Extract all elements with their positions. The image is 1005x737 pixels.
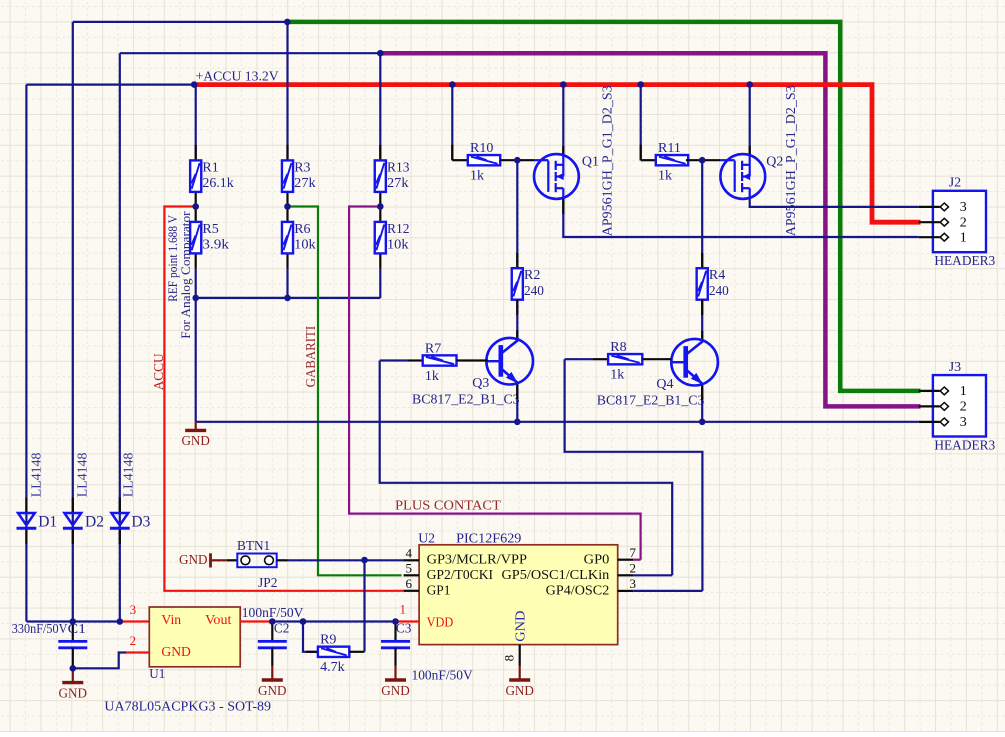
svg-text:J2: J2 <box>949 176 961 191</box>
svg-text:2: 2 <box>960 216 967 231</box>
svg-text:1: 1 <box>960 231 967 246</box>
svg-text:GND: GND <box>513 611 528 642</box>
svg-text:GP5/OSC1/CLKin: GP5/OSC1/CLKin <box>502 568 610 583</box>
svg-text:LL4148: LL4148 <box>29 453 44 498</box>
svg-text:1k: 1k <box>470 169 484 184</box>
svg-text:LL4148: LL4148 <box>75 453 90 498</box>
svg-text:26.1k: 26.1k <box>202 176 233 191</box>
svg-text:D3: D3 <box>131 514 150 531</box>
svg-text:GABARITI: GABARITI <box>303 325 318 387</box>
svg-text:HEADER3: HEADER3 <box>934 438 995 453</box>
svg-text:R12: R12 <box>387 222 410 237</box>
svg-text:Q1: Q1 <box>582 155 599 170</box>
svg-text:UA78L05ACPKG3 - SOT-89: UA78L05ACPKG3 - SOT-89 <box>104 699 271 714</box>
svg-text:27k: 27k <box>294 176 316 191</box>
svg-text:+ACCU 13.2V: +ACCU 13.2V <box>196 69 279 84</box>
svg-text:3.9k: 3.9k <box>202 238 229 253</box>
svg-text:PIC12F629: PIC12F629 <box>456 531 521 546</box>
svg-text:3: 3 <box>130 602 137 617</box>
svg-text:1: 1 <box>400 601 407 616</box>
svg-text:U1: U1 <box>149 667 165 682</box>
svg-text:GND: GND <box>161 645 191 660</box>
svg-text:GND: GND <box>179 553 208 568</box>
svg-text:U2: U2 <box>418 531 435 546</box>
svg-text:LL4148: LL4148 <box>121 453 136 498</box>
svg-text:R1: R1 <box>202 160 218 175</box>
svg-text:1: 1 <box>960 384 967 399</box>
svg-text:GP3/MCLR/VPP: GP3/MCLR/VPP <box>427 552 528 567</box>
svg-text:240: 240 <box>709 284 729 299</box>
svg-text:HEADER3: HEADER3 <box>934 253 995 268</box>
svg-text:ACCU: ACCU <box>152 353 167 390</box>
svg-text:C3: C3 <box>396 622 412 637</box>
svg-text:VDD: VDD <box>427 615 454 630</box>
svg-text:1k: 1k <box>610 368 624 383</box>
svg-text:R3: R3 <box>294 160 310 175</box>
svg-text:R8: R8 <box>610 340 626 355</box>
svg-text:GP1: GP1 <box>427 583 451 598</box>
svg-text:R10: R10 <box>470 141 493 156</box>
svg-text:27k: 27k <box>387 176 409 191</box>
svg-text:BC817_E2_B1_C3: BC817_E2_B1_C3 <box>412 393 520 408</box>
svg-text:4: 4 <box>406 545 413 560</box>
svg-text:BTN1: BTN1 <box>237 539 270 554</box>
svg-text:2: 2 <box>630 561 637 576</box>
svg-text:6: 6 <box>406 576 413 591</box>
svg-text:R6: R6 <box>294 222 310 237</box>
svg-text:BC817_E2_B1_C3: BC817_E2_B1_C3 <box>597 393 705 408</box>
svg-text:3: 3 <box>960 415 967 430</box>
svg-text:Q4: Q4 <box>656 377 673 392</box>
svg-text:Q2: Q2 <box>766 155 783 170</box>
svg-text:GND: GND <box>59 686 88 701</box>
svg-text:AP9561GH_P_G1_D2_S3: AP9561GH_P_G1_D2_S3 <box>784 85 799 236</box>
svg-text:5: 5 <box>406 560 413 575</box>
svg-text:Q3: Q3 <box>472 376 489 391</box>
svg-text:R13: R13 <box>387 160 410 175</box>
svg-text:PLUS CONTACT: PLUS CONTACT <box>395 498 501 513</box>
svg-text:R7: R7 <box>425 341 441 356</box>
svg-text:240: 240 <box>524 284 544 299</box>
svg-text:Vin: Vin <box>161 613 181 628</box>
svg-text:C2: C2 <box>274 622 290 637</box>
svg-text:3: 3 <box>960 200 967 215</box>
svg-text:R2: R2 <box>524 268 540 283</box>
svg-text:GND: GND <box>505 684 534 699</box>
svg-text:D2: D2 <box>85 514 104 531</box>
svg-text:JP2: JP2 <box>258 576 277 591</box>
svg-text:C1: C1 <box>68 622 86 637</box>
svg-text:10k: 10k <box>387 238 409 253</box>
svg-text:Vout: Vout <box>205 613 231 628</box>
svg-text:GP0: GP0 <box>584 552 610 567</box>
svg-text:8: 8 <box>502 655 517 662</box>
svg-text:GND: GND <box>181 434 210 449</box>
svg-text:AP9561GH_P_G1_D2_S3: AP9561GH_P_G1_D2_S3 <box>601 85 616 236</box>
svg-text:100nF/50V: 100nF/50V <box>412 668 473 683</box>
svg-text:4.7k: 4.7k <box>320 660 345 675</box>
svg-text:R11: R11 <box>658 141 681 156</box>
svg-text:7: 7 <box>630 545 637 560</box>
svg-text:10k: 10k <box>294 238 316 253</box>
svg-text:GP2/T0CKI: GP2/T0CKI <box>427 568 494 583</box>
svg-text:R9: R9 <box>320 633 336 648</box>
svg-text:3: 3 <box>630 576 637 591</box>
svg-text:2: 2 <box>960 400 967 415</box>
svg-text:For Analog Comparator: For Analog Comparator <box>179 211 193 339</box>
svg-text:GND: GND <box>258 684 287 699</box>
svg-text:R4: R4 <box>709 268 725 283</box>
svg-text:D1: D1 <box>38 514 57 531</box>
svg-text:REF point 1.688 V: REF point 1.688 V <box>166 215 180 302</box>
svg-text:GP4/OSC2: GP4/OSC2 <box>546 583 610 598</box>
svg-text:1k: 1k <box>658 169 672 184</box>
svg-text:R5: R5 <box>202 222 218 237</box>
svg-text:1k: 1k <box>425 369 439 384</box>
svg-text:330nF/50V: 330nF/50V <box>12 622 68 637</box>
svg-text:J3: J3 <box>949 360 961 375</box>
svg-text:GND: GND <box>381 684 410 699</box>
svg-text:2: 2 <box>130 633 137 648</box>
